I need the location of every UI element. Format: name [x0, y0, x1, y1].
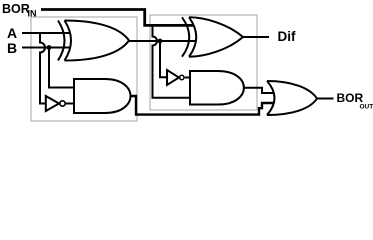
xor gate X1 — [58, 21, 129, 61]
label A — [7, 25, 17, 41]
label BOR_IN — [2, 2, 37, 19]
wire AND2 output to OR top input — [243, 88, 274, 93]
svg-text:B: B — [7, 40, 17, 56]
svg-text:A: A — [7, 25, 17, 41]
half-subtractor box HS2 — [150, 15, 257, 110]
svg-text:IN: IN — [28, 9, 37, 19]
wire S1: XOR1 output to XOR2 bottom input — [129, 40, 196, 42]
svg-text:BOR: BOR — [2, 2, 30, 16]
label Dif — [278, 29, 297, 44]
or gate O1 — [267, 81, 317, 115]
not gate N1 — [46, 96, 65, 111]
node junction dot on B — [47, 45, 52, 50]
svg-text:Dif: Dif — [278, 29, 297, 44]
wire AND1 output routed under HS2 to OR bottom input — [131, 96, 275, 115]
xor gate X2 — [182, 17, 243, 56]
wire BOR_IN branch down with hop over S1, to AND2 bottom input — [153, 25, 191, 97]
wire S1 branch down to NOT2 input — [160, 41, 167, 77]
and gate A1 — [74, 79, 131, 113]
label B — [7, 40, 17, 56]
wire BOR_OUT output from OR — [317, 98, 334, 100]
wire input A to XOR1 top input — [22, 32, 70, 34]
label BOR_OUT — [337, 91, 373, 111]
and gate A2 — [190, 71, 244, 105]
half-subtractor box HS1 — [31, 17, 137, 121]
not gate N2 — [167, 70, 184, 85]
wire NOT2 output to AND2 top input — [185, 77, 190, 79]
wire input B to XOR1 bottom input — [22, 47, 70, 49]
node junction dot on S1 — [158, 39, 163, 44]
wire NOT1 output to AND1 bottom input — [66, 103, 74, 105]
svg-text:OUT: OUT — [360, 104, 373, 111]
wire BOR_IN net to XOR2 top input — [41, 10, 194, 26]
wire Dif output from XOR2 — [243, 36, 269, 38]
wire A branch down with hop over B, to NOT1 input — [40, 33, 47, 104]
wire B branch down to AND1 top input — [49, 48, 74, 88]
